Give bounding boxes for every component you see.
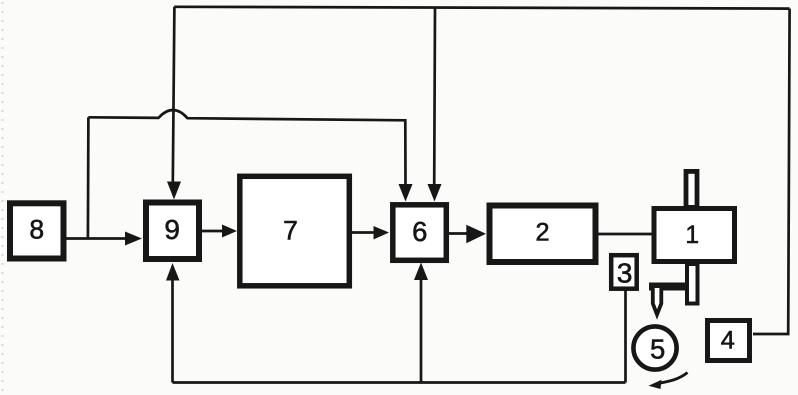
wire: vertical drop from top line into block 6 top (right arrow) — [433, 8, 436, 186]
wire: vertical drop from top line into block 9 top — [173, 7, 175, 183]
wire: top feedback line from node above 9 to right side — [174, 7, 789, 9]
svg-text:9: 9 — [164, 214, 180, 245]
wire: bottom line up into block 9 bottom — [171, 278, 174, 383]
svg-text:5: 5 — [650, 333, 665, 364]
drum 5 (circle) — [633, 326, 676, 369]
arrowhead into block 9 left — [125, 232, 142, 246]
arrowhead into block 6 top (left, from second line) — [399, 184, 413, 202]
svg-text:8: 8 — [29, 215, 44, 245]
wire: second feedback line with hop over vertical — [88, 110, 405, 186]
rotation arrow under drum 5 — [649, 373, 688, 390]
svg-text:2: 2 — [535, 219, 549, 247]
arrowhead into block 6 top (right, from top line) — [428, 184, 442, 202]
wire: block 9 output to block 7 — [202, 230, 225, 233]
arrowhead into block 6 bottom — [414, 263, 428, 281]
wire: block 8 output to block 9 — [64, 237, 128, 240]
block 2 — [490, 206, 596, 263]
arrowhead into block 9 top — [167, 182, 181, 200]
shaft above block 1 — [686, 171, 697, 207]
block 1 — [654, 209, 735, 262]
block 6 — [393, 205, 447, 260]
wire: block 3 down to bottom feedback line — [624, 290, 627, 383]
shaft below block 1 — [687, 264, 698, 304]
wire: right-side vertical down to block 4 — [753, 9, 790, 334]
wire: left vertical of second line down to 8-9 signal path — [87, 117, 90, 238]
svg-text:3: 3 — [617, 257, 633, 289]
wire: block 7 output to block 6 — [350, 231, 377, 234]
block 4 — [708, 321, 750, 361]
arrowhead into block 2 left — [466, 225, 486, 244]
arrowhead into block 7 left — [222, 225, 237, 238]
block 8 — [10, 203, 64, 258]
scan noise: faint dotted left edge — [2, 2, 4, 393]
svg-text:6: 6 — [412, 216, 427, 247]
block 7 — [240, 176, 349, 285]
pen nib — [653, 288, 662, 315]
wire: bottom line up into block 6 bottom — [420, 279, 423, 383]
wire: block 2 output to block 1 — [597, 233, 653, 236]
svg-text:4: 4 — [721, 326, 735, 354]
arrowhead into block 9 bottom — [166, 263, 180, 281]
pen arm solid bar — [649, 283, 687, 291]
block 9 — [146, 203, 199, 260]
block 3 — [611, 255, 637, 289]
svg-text:7: 7 — [283, 216, 298, 246]
svg-text:1: 1 — [685, 222, 699, 249]
wire: block 6 output to block 2 — [447, 232, 469, 235]
arrowhead into block 6 left — [374, 226, 390, 240]
wire: bottom feedback line — [173, 381, 626, 384]
